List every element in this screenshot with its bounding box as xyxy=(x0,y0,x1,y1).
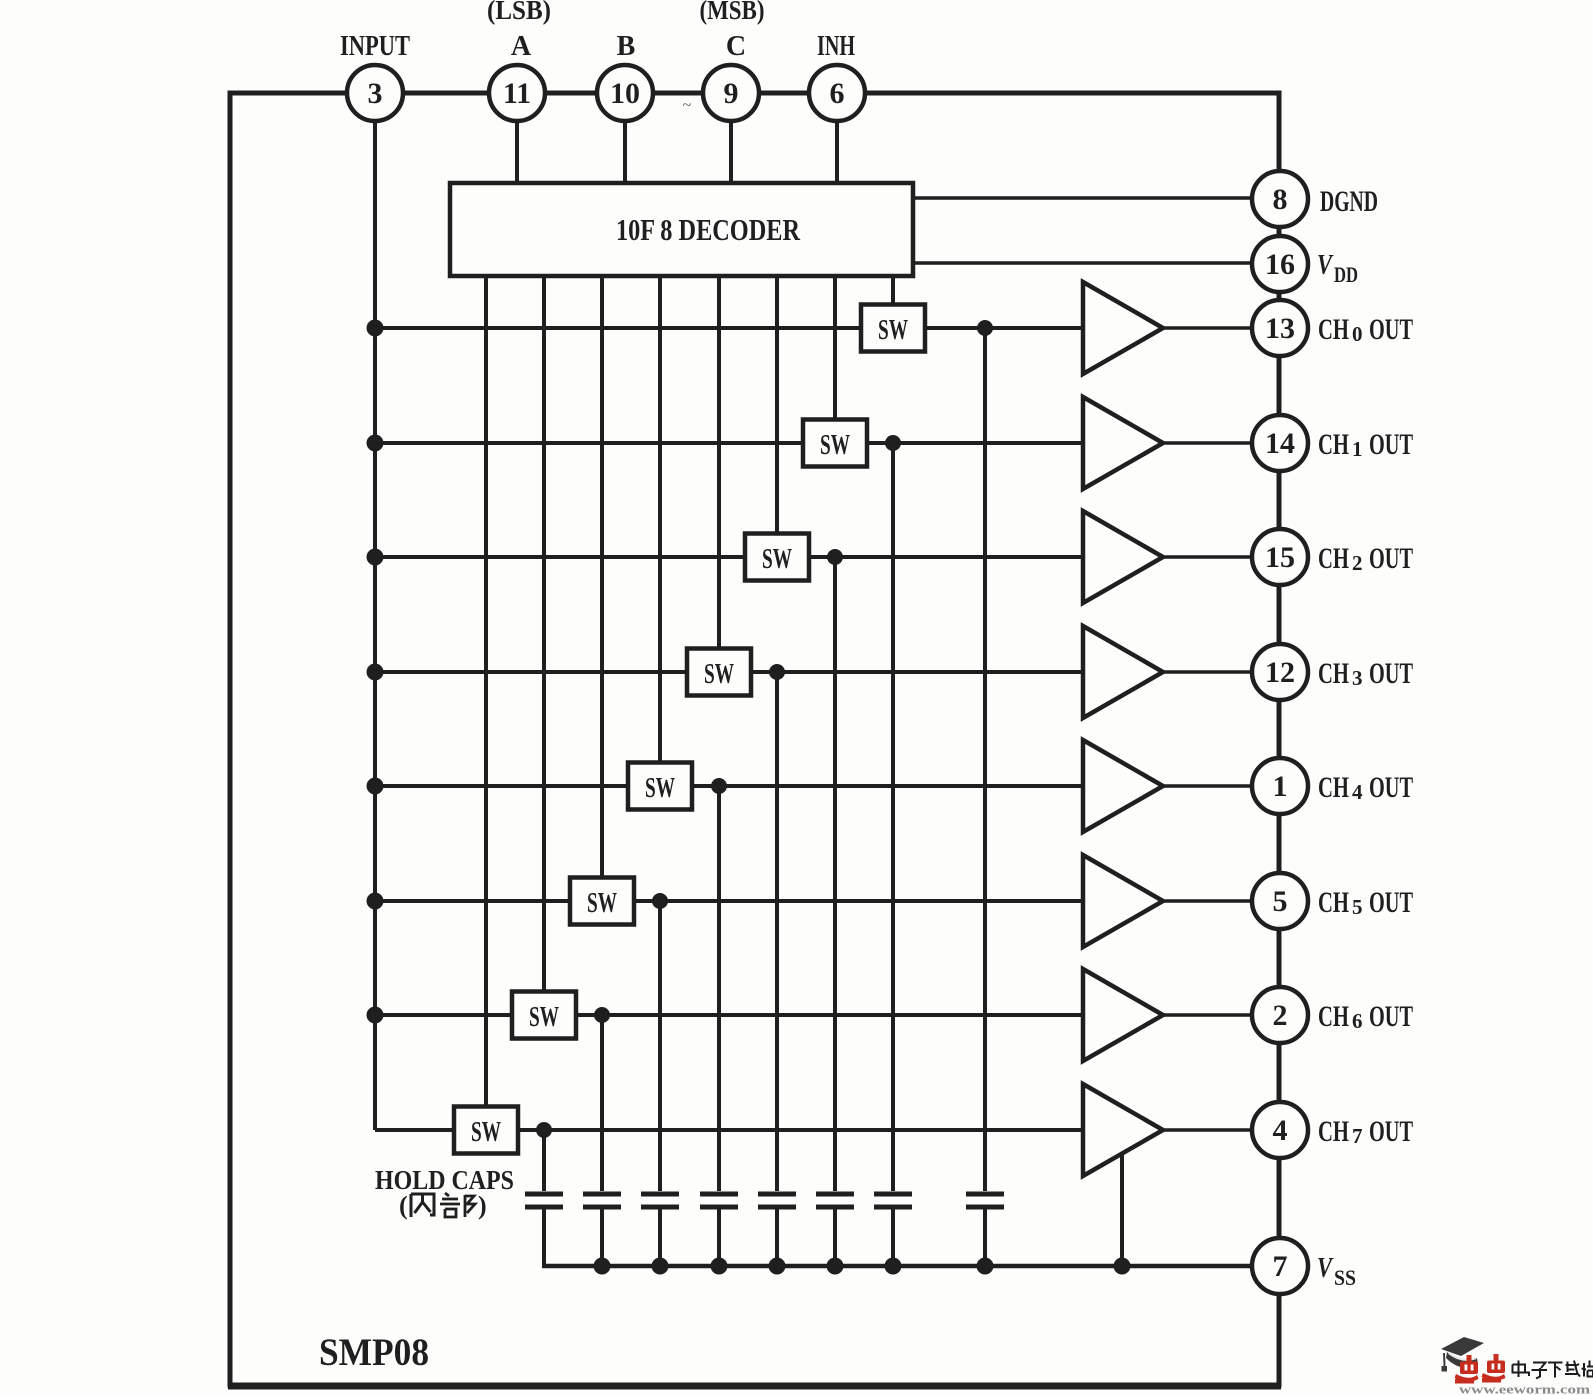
wire: CH4 hold-capacitor line down xyxy=(717,786,721,1191)
label CH6 OUT xyxy=(1318,1000,1413,1033)
junction: SW CH4 output / hold node xyxy=(711,778,727,794)
watermark: eeworm graduation cap icon xyxy=(1441,1337,1484,1372)
wire: amp CH2 output to pin 15 xyxy=(1163,555,1254,559)
op-amp buffer A7 (CH7) xyxy=(1083,1084,1163,1176)
watermark: red worm characters xyxy=(1455,1354,1506,1384)
capacitor: CH5 hold cap xyxy=(641,1194,679,1266)
wire: amp CH1 output to pin 14 xyxy=(1163,441,1254,445)
svg-text:10: 10 xyxy=(610,77,640,110)
label CH0 OUT xyxy=(1318,313,1413,346)
pin 1 xyxy=(1252,758,1308,814)
pin 11 (A) xyxy=(489,65,545,121)
capacitor: CH7 hold cap xyxy=(525,1194,563,1266)
wire: CH5 hold-capacitor line down xyxy=(658,901,662,1191)
svg-text:SS: SS xyxy=(1334,1265,1356,1290)
svg-text:CH: CH xyxy=(1318,1115,1349,1148)
label VSS xyxy=(1317,1252,1356,1290)
switch SW CH6 xyxy=(512,992,576,1039)
label VDD xyxy=(1317,249,1358,287)
pin 10 (B) xyxy=(597,65,653,121)
pin 3 (INPUT) xyxy=(347,65,403,121)
label CH2 OUT xyxy=(1318,542,1413,575)
wire: decoder output to SW CH4 xyxy=(658,276,662,763)
op-amp buffer A5 (CH5) xyxy=(1083,855,1163,947)
svg-text:15: 15 xyxy=(1265,541,1295,574)
label CH3 OUT xyxy=(1318,657,1413,690)
wire: CH4 row from input bus to SW xyxy=(375,784,628,788)
wire: decoder output to SW CH2 xyxy=(775,276,779,534)
svg-text:OUT: OUT xyxy=(1369,886,1413,919)
svg-text:5: 5 xyxy=(1352,895,1363,919)
svg-text:7: 7 xyxy=(1352,1124,1363,1148)
svg-text:CH: CH xyxy=(1318,1000,1349,1033)
wire: amp CH6 output to pin 2 xyxy=(1163,1013,1254,1017)
junction: input bus at CH1 row xyxy=(367,435,384,452)
junction: SW CH1 output / hold node xyxy=(885,435,901,451)
svg-text:2: 2 xyxy=(1352,551,1363,575)
svg-text:3: 3 xyxy=(368,77,383,110)
svg-text:OUT: OUT xyxy=(1369,771,1413,804)
wire: amp CH7 output to pin 4 xyxy=(1163,1128,1254,1132)
junction: SW CH5 output / hold node xyxy=(652,893,668,909)
svg-text:OUT: OUT xyxy=(1369,657,1413,690)
svg-text:7: 7 xyxy=(1273,1250,1288,1283)
svg-text:(: ( xyxy=(399,1191,408,1220)
wire: CH4 row from SW to buffer amp input xyxy=(692,784,1083,788)
capacitor: CH4 hold cap xyxy=(700,1194,738,1266)
svg-text:1: 1 xyxy=(1273,770,1288,803)
pin 2 xyxy=(1252,987,1308,1043)
wire: amp CH3 output to pin 12 xyxy=(1163,670,1254,674)
wire: decoder output to SW CH3 xyxy=(717,276,721,649)
wire: decoder output to SW CH6 xyxy=(542,276,546,992)
svg-text:OUT: OUT xyxy=(1369,313,1413,346)
wire: CH6 hold-capacitor line down xyxy=(600,1015,604,1191)
op-amp buffer A4 (CH4) xyxy=(1083,740,1163,832)
wire: CH7 buffer amp to VSS rail xyxy=(1120,1152,1124,1266)
junction: input bus at CH4 row xyxy=(367,778,384,795)
wire: CH2 hold-capacitor line down xyxy=(833,557,837,1191)
pin 6 (INH) xyxy=(809,65,865,121)
label CH7 OUT xyxy=(1318,1115,1413,1148)
svg-text:SW: SW xyxy=(762,544,792,575)
capacitor: CH6 hold cap xyxy=(583,1194,621,1266)
junction: SW CH6 output / hold node xyxy=(594,1007,610,1023)
svg-text:DGND: DGND xyxy=(1320,185,1378,218)
svg-text:DD: DD xyxy=(1334,262,1358,287)
wire: pin 9 (C) stub to decoder xyxy=(729,93,733,185)
wire: CH7 row from input bus to SW xyxy=(375,1128,454,1132)
junction: VSS rail node 7 xyxy=(977,1258,994,1275)
pin 15 xyxy=(1252,529,1308,585)
svg-text:CH: CH xyxy=(1318,542,1349,575)
junction: input bus at CH3 row xyxy=(367,664,384,681)
svg-text:OUT: OUT xyxy=(1369,428,1413,461)
pin 14 xyxy=(1252,415,1308,471)
svg-text:V: V xyxy=(1317,249,1334,281)
svg-text:(LSB): (LSB) xyxy=(487,0,551,25)
svg-text:OUT: OUT xyxy=(1369,542,1413,575)
wire: CH6 row from SW to buffer amp input xyxy=(576,1013,1083,1017)
junction: SW CH2 output / hold node xyxy=(827,549,843,565)
wire: decoder output to SW CH5 xyxy=(600,276,604,878)
svg-text:SMP08: SMP08 xyxy=(319,1331,429,1374)
capacitor: CH0 hold cap xyxy=(966,1194,1004,1266)
junction: input bus at CH2 row xyxy=(367,549,384,566)
junction: SW CH7 output / hold node xyxy=(536,1122,552,1138)
wire: CH0 row from input bus to SW xyxy=(375,326,861,330)
wire: decoder output to SW CH0 xyxy=(891,276,895,305)
wire: pin 6 (INH) stub to decoder xyxy=(835,93,839,185)
capacitor: CH2 hold cap xyxy=(816,1194,854,1266)
pin 4 xyxy=(1252,1102,1308,1158)
wire: CH3 hold-capacitor line down xyxy=(775,672,779,1191)
wire: decoder to VDD pin 16 xyxy=(911,261,1254,265)
svg-text:C: C xyxy=(726,31,746,62)
wire: INPUT bus vertical from pin 3 down to CH7 row xyxy=(373,93,377,1130)
wire: VSS rail at bottom xyxy=(542,1264,1254,1269)
wire: CH2 row from SW to buffer amp input xyxy=(809,555,1083,559)
pin 13 xyxy=(1252,300,1308,356)
wire: pin 11 (A) stub to decoder xyxy=(515,93,519,185)
wire: CH7 hold-capacitor line down xyxy=(542,1130,546,1191)
pin 12 xyxy=(1252,644,1308,700)
svg-text:HOLD CAPS: HOLD CAPS xyxy=(375,1165,514,1195)
svg-text:4: 4 xyxy=(1352,780,1363,804)
wire: amp CH0 output to pin 13 xyxy=(1163,326,1254,330)
svg-text:OUT: OUT xyxy=(1369,1000,1413,1033)
switch SW CH2 xyxy=(745,534,809,581)
svg-text:CH: CH xyxy=(1318,428,1349,461)
svg-text:2: 2 xyxy=(1273,999,1288,1032)
svg-text:11: 11 xyxy=(503,77,531,110)
pin 9 (C) xyxy=(703,65,759,121)
switch SW CH0 xyxy=(861,305,925,352)
wire: CH1 row from SW to buffer amp input xyxy=(867,441,1083,445)
svg-text:~: ~ xyxy=(683,97,692,114)
op-amp buffer A0 (CH0) xyxy=(1083,282,1163,374)
junction: input bus at CH5 row xyxy=(367,893,384,910)
junction: SW CH0 output / hold node xyxy=(977,320,993,336)
wire: CH0 row from SW to buffer amp input xyxy=(925,326,1083,330)
wire: CH0 hold-capacitor line down xyxy=(983,328,987,1191)
wire: CH6 row from input bus to SW xyxy=(375,1013,512,1017)
decoder block U1: 1 OF 8 DECODER xyxy=(450,183,913,276)
junction: VSS rail node 3 xyxy=(711,1258,728,1275)
svg-text:8: 8 xyxy=(1273,183,1288,216)
svg-text:CH: CH xyxy=(1318,657,1349,690)
junction: VSS rail node 1 xyxy=(594,1258,611,1275)
junction: VSS rail node 5 xyxy=(827,1258,844,1275)
svg-text:1: 1 xyxy=(1352,437,1363,461)
label CH5 OUT xyxy=(1318,886,1413,919)
junction: SW CH3 output / hold node xyxy=(769,664,785,680)
label CH1 OUT xyxy=(1318,428,1413,461)
junction: VSS rail node 6 xyxy=(885,1258,902,1275)
switch SW CH7 xyxy=(454,1107,518,1154)
op-amp buffer A6 (CH6) xyxy=(1083,969,1163,1061)
pin 5 xyxy=(1252,873,1308,929)
svg-text:SW: SW xyxy=(820,430,850,461)
label (internal) Chinese xyxy=(399,1191,487,1220)
op-amp buffer A2 (CH2) xyxy=(1083,511,1163,603)
wire: CH1 row from input bus to SW xyxy=(375,441,803,445)
wire: CH3 row from input bus to SW xyxy=(375,670,687,674)
svg-text:SW: SW xyxy=(704,659,734,690)
switch SW CH4 xyxy=(628,763,692,810)
svg-text:6: 6 xyxy=(1352,1009,1363,1033)
capacitor: CH1 hold cap xyxy=(874,1194,912,1266)
svg-text:SW: SW xyxy=(587,888,617,919)
svg-text:4: 4 xyxy=(1273,1114,1288,1147)
svg-text:13: 13 xyxy=(1265,312,1295,345)
wire: amp CH5 output to pin 5 xyxy=(1163,899,1254,903)
svg-text:(MSB): (MSB) xyxy=(700,0,765,25)
wire: decoder output to SW CH1 xyxy=(833,276,837,420)
wire: CH5 row from SW to buffer amp input xyxy=(634,899,1083,903)
switch SW CH1 xyxy=(803,420,867,467)
svg-text:CH: CH xyxy=(1318,313,1349,346)
svg-text:9: 9 xyxy=(724,77,739,110)
watermark: site name characters xyxy=(1513,1361,1593,1379)
svg-text:5: 5 xyxy=(1273,885,1288,918)
svg-text:www.eeworm.com: www.eeworm.com xyxy=(1459,1382,1590,1395)
junction: input bus at CH6 row xyxy=(367,1007,384,1024)
op-amp buffer A1 (CH1) xyxy=(1083,397,1163,489)
wire: CH1 hold-capacitor line down xyxy=(891,443,895,1191)
wire: CH3 row from SW to buffer amp input xyxy=(751,670,1083,674)
wire: CH7 row from SW to buffer amp input xyxy=(518,1128,1083,1132)
svg-text:INPUT: INPUT xyxy=(340,31,410,62)
svg-text:INH: INH xyxy=(817,31,855,62)
junction: VSS rail node 2 xyxy=(652,1258,669,1275)
svg-text:OUT: OUT xyxy=(1369,1115,1413,1148)
svg-text:0: 0 xyxy=(1352,322,1363,346)
wire: decoder to DGND pin 8 xyxy=(911,196,1254,200)
junction: input bus at CH0 row xyxy=(367,320,384,337)
switch SW CH3 xyxy=(687,649,751,696)
svg-text:): ) xyxy=(478,1191,487,1220)
junction: VSS rail node 8 xyxy=(1114,1258,1131,1275)
op-amp buffer A3 (CH3) xyxy=(1083,626,1163,718)
svg-text:12: 12 xyxy=(1265,656,1295,689)
label CH4 OUT xyxy=(1318,771,1413,804)
IC outline bottom edge (thick scan line) xyxy=(228,1384,1281,1390)
svg-text:CH: CH xyxy=(1318,771,1349,804)
svg-text:SW: SW xyxy=(645,773,675,804)
svg-text:14: 14 xyxy=(1265,427,1295,460)
svg-text:CH: CH xyxy=(1318,886,1349,919)
switch SW CH5 xyxy=(570,878,634,925)
svg-text:SW: SW xyxy=(529,1002,559,1033)
junction: VSS rail node 4 xyxy=(769,1258,786,1275)
capacitor: CH3 hold cap xyxy=(758,1194,796,1266)
wire: CH5 row from input bus to SW xyxy=(375,899,570,903)
svg-text:A: A xyxy=(511,31,532,62)
svg-text:V: V xyxy=(1317,1252,1334,1284)
pin 16 xyxy=(1252,236,1308,292)
wire: CH2 row from input bus to SW xyxy=(375,555,745,559)
wire: amp CH4 output to pin 1 xyxy=(1163,784,1254,788)
svg-text:SW: SW xyxy=(471,1117,501,1148)
svg-text:B: B xyxy=(617,31,636,62)
svg-text:10F 8 DECODER: 10F 8 DECODER xyxy=(616,212,800,247)
svg-text:3: 3 xyxy=(1352,666,1363,690)
svg-text:6: 6 xyxy=(830,77,845,110)
svg-text:16: 16 xyxy=(1265,248,1295,281)
wire: decoder output to SW CH7 xyxy=(484,276,488,1107)
IC package outline xyxy=(230,93,1279,1385)
wire: pin 10 (B) stub to decoder xyxy=(623,93,627,185)
svg-text:SW: SW xyxy=(878,315,908,346)
pin 7 xyxy=(1252,1238,1308,1294)
pin 8 xyxy=(1252,171,1308,227)
